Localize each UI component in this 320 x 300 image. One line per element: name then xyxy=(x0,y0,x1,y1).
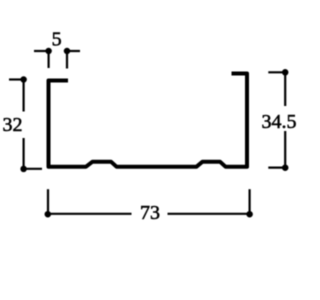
dimension 32: top terminator dot xyxy=(20,76,27,83)
dimension 34.5: bottom terminator dot xyxy=(282,164,289,171)
dimension 34.5: dimension line upper segment xyxy=(284,72,286,106)
dimension 5: left extension line xyxy=(47,52,49,68)
dimension 5: left terminator dot xyxy=(45,48,52,55)
dimension 73: dimension line right segment xyxy=(168,213,250,215)
dimension 73: left terminator dot xyxy=(45,211,52,218)
dimension 5: right terminator dot xyxy=(64,48,71,55)
dimension 32: top leader line xyxy=(9,78,24,80)
dimension 34.5: top leader line xyxy=(268,71,285,73)
dimension 32: bottom leader line xyxy=(24,168,42,170)
channel profile outline xyxy=(49,74,248,167)
dimension 34.5: bottom leader line xyxy=(268,167,285,169)
svg-text:5: 5 xyxy=(52,29,62,51)
svg-text:34.5: 34.5 xyxy=(262,111,297,133)
dimension 73: right extension line xyxy=(249,189,251,214)
dimension 32: dimension line upper segment xyxy=(23,80,25,112)
dimension 5: right leader line xyxy=(67,50,80,52)
dimension 5: right extension line xyxy=(66,52,68,69)
dimension 73: right terminator dot xyxy=(246,211,253,218)
dimension 32: dimension line lower segment xyxy=(23,138,25,169)
svg-text:73: 73 xyxy=(140,202,160,224)
dimension 34.5: dimension line lower segment xyxy=(284,131,286,168)
dimension 73: left extension line xyxy=(47,189,49,214)
dimension 32: bottom terminator dot xyxy=(20,166,27,173)
svg-text:32: 32 xyxy=(3,114,23,136)
dimension 5: left leader line xyxy=(34,50,49,52)
dimension 34.5: top terminator dot xyxy=(282,69,289,76)
dimension 73: dimension line left segment xyxy=(49,213,132,215)
